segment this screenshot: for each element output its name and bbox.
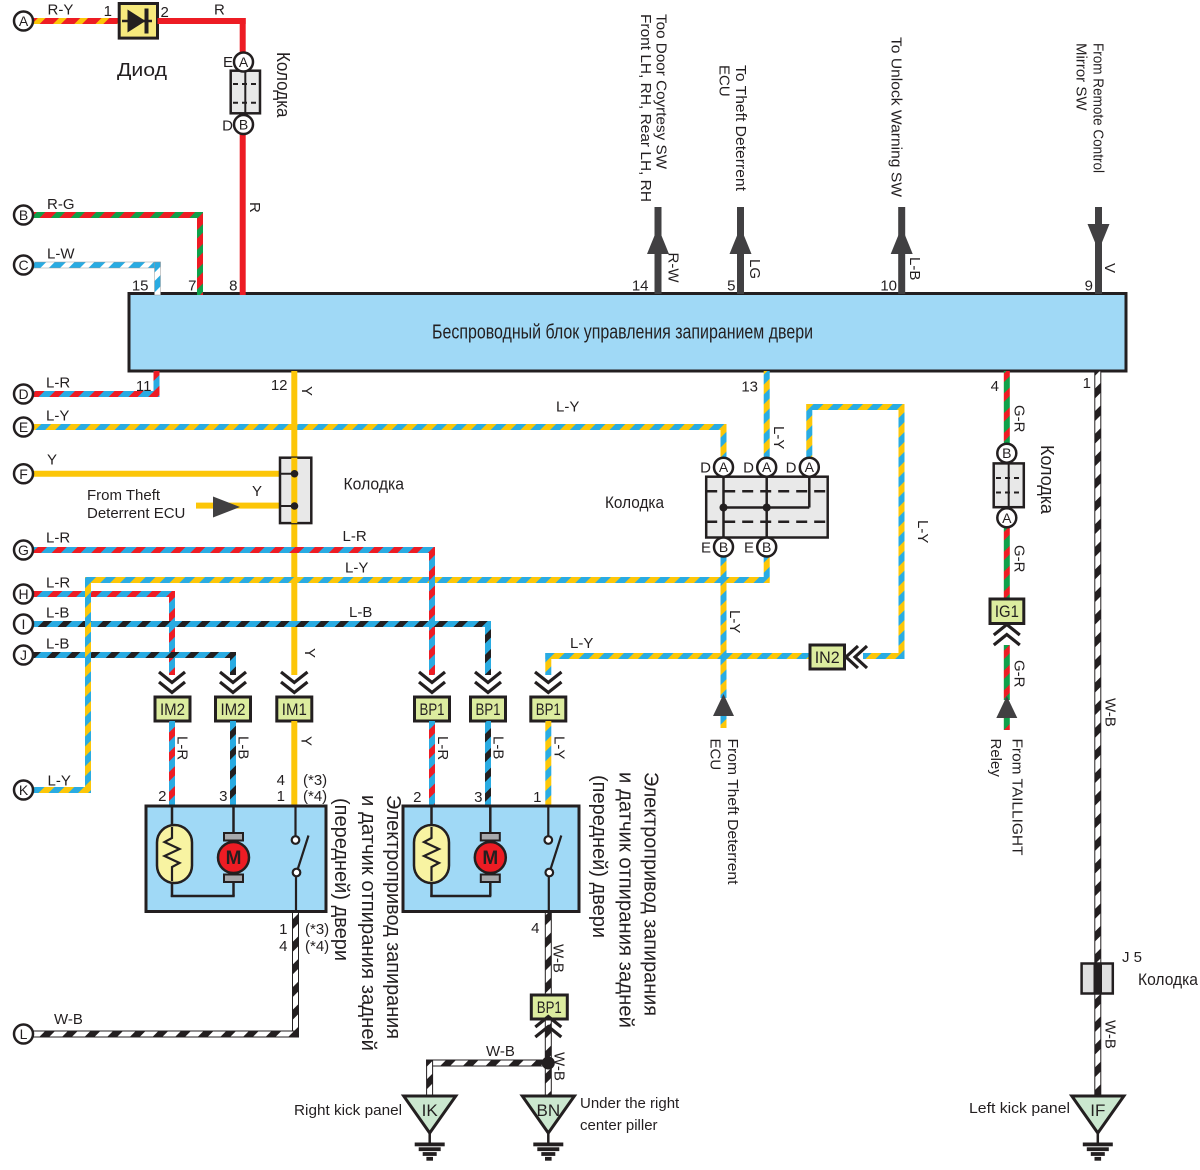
svg-text:B: B — [1002, 445, 1011, 461]
svg-text:E: E — [223, 54, 233, 71]
wire L-R from node D to ECU pin 11 — [31, 371, 160, 397]
svg-text:12: 12 — [271, 377, 288, 394]
svg-text:R: R — [214, 2, 225, 19]
svg-text:V: V — [1101, 263, 1118, 273]
bulb / unlock sensor resistor rear — [414, 808, 491, 898]
svg-text:Колодка: Колодка — [344, 475, 405, 494]
svg-text:Y: Y — [298, 736, 315, 746]
svg-text:Reley: Reley — [987, 739, 1004, 778]
wire L-R IM2 no.1 to actuator pin 2 — [169, 721, 191, 806]
svg-text:B: B — [762, 539, 771, 555]
svg-text:R-G: R-G — [47, 196, 75, 213]
BP1 junction block bottom — [531, 995, 567, 1019]
svg-text:W-B: W-B — [550, 944, 567, 973]
svg-text:M: M — [482, 848, 498, 869]
svg-text:2: 2 — [413, 789, 421, 806]
svg-text:D: D — [700, 460, 711, 477]
wireless door lock control ECU block — [129, 294, 1126, 372]
svg-text:L: L — [20, 1026, 28, 1042]
svg-text:Колодка: Колодка — [273, 52, 293, 118]
svg-text:J 5: J 5 — [1122, 949, 1142, 966]
switch / unlock detection switch rear — [545, 808, 562, 912]
chevrons below bottom BP1 — [535, 1017, 561, 1038]
svg-text:IM2: IM2 — [221, 700, 246, 719]
front actuator pin labels — [158, 772, 329, 955]
svg-text:Y: Y — [252, 483, 262, 500]
wire W-B branch to IK ground — [427, 1043, 552, 1096]
chevrons below IG1 — [994, 625, 1020, 646]
svg-text:Front LH, RH, Rear LH, RH: Front LH, RH, Rear LH, RH — [637, 14, 654, 202]
svg-text:L-R: L-R — [434, 736, 451, 760]
svg-text:IG1: IG1 — [995, 602, 1019, 621]
svg-text:From Theft: From Theft — [87, 487, 161, 504]
svg-text:L-W: L-W — [47, 246, 75, 263]
svg-text:To Unlock Warning SW: To Unlock Warning SW — [888, 37, 905, 198]
wire L-Y from connector B1 down to theft deterrent arrow — [721, 557, 744, 729]
BP1 relay block no.3 — [531, 697, 566, 721]
svg-text:E: E — [744, 540, 754, 557]
IM2 relay block no.2 — [216, 697, 251, 721]
svg-text:L-R: L-R — [174, 736, 191, 760]
svg-text:1: 1 — [104, 3, 112, 20]
chevrons above IM2 no.2 — [220, 672, 246, 693]
wire Y from node F to connector — [31, 452, 295, 477]
svg-text:Колодка: Колодка — [1138, 970, 1198, 989]
connector (Kolodka) right near pin 4 — [994, 444, 1057, 528]
svg-text:From Theft Deterrent: From Theft Deterrent — [724, 739, 741, 886]
ECU pin labels bottom — [136, 375, 1091, 396]
svg-text:1: 1 — [279, 921, 287, 938]
svg-text:L-Y: L-Y — [570, 635, 593, 652]
svg-text:4: 4 — [279, 938, 287, 955]
svg-text:IF: IF — [1090, 1101, 1105, 1120]
IG1 junction block — [990, 599, 1024, 624]
svg-text:(передней) двери: (передней) двери — [330, 798, 352, 961]
top arrow from remote control mirror switch pin 9 — [1073, 43, 1119, 295]
svg-text:B: B — [239, 117, 248, 133]
ground IK right kick panel — [294, 1096, 456, 1161]
connector (Kolodka) top near diode — [222, 52, 293, 135]
svg-text:J: J — [20, 647, 27, 663]
svg-text:A: A — [239, 54, 249, 70]
junction dot W-B — [542, 1057, 555, 1070]
motor M rear — [475, 808, 506, 897]
svg-text:R-Y: R-Y — [48, 2, 74, 19]
chevrons above IM2 no.1 — [159, 672, 185, 693]
svg-text:G-R: G-R — [1011, 660, 1028, 688]
svg-text:(*4): (*4) — [303, 788, 327, 805]
svg-text:1: 1 — [277, 788, 285, 805]
bulb / unlock sensor resistor front — [157, 808, 235, 898]
svg-text:G: G — [18, 542, 29, 558]
svg-text:L-R: L-R — [343, 528, 367, 545]
ECU pin labels top — [132, 278, 238, 295]
svg-text:From Remote Control: From Remote Control — [1090, 43, 1107, 173]
svg-text:center piller: center piller — [580, 1117, 658, 1134]
svg-text:K: K — [19, 782, 29, 798]
node I — [14, 615, 33, 634]
wire L-Y from node E to connector A1 — [31, 399, 727, 459]
arrow from theft deterrent ECU (up) — [707, 694, 742, 885]
svg-text:Under the right: Under the right — [580, 1095, 680, 1112]
svg-text:BP1: BP1 — [536, 700, 561, 719]
svg-text:IK: IK — [422, 1101, 439, 1120]
front door lock actuator box — [146, 806, 326, 912]
svg-text:L-B: L-B — [46, 605, 69, 622]
svg-text:Электропривод запирания: Электропривод запирания — [640, 772, 662, 1016]
svg-text:Y: Y — [298, 386, 315, 396]
diode D1 — [104, 3, 169, 80]
svg-text:Беспроводный блок управления з: Беспроводный блок управления запиранием … — [432, 322, 813, 344]
node L — [14, 1025, 33, 1044]
svg-text:BP1: BP1 — [420, 700, 445, 719]
svg-text:ECU: ECU — [716, 65, 733, 97]
svg-text:BN: BN — [536, 1101, 560, 1120]
switch / unlock detection switch front — [292, 808, 309, 912]
connector J5 (Kolodka) on W-B wire — [1082, 949, 1199, 994]
node D — [14, 385, 33, 404]
svg-text:D: D — [18, 386, 28, 402]
node H — [14, 585, 33, 604]
wire Y from ECU pin 12 down to IM1 — [291, 371, 318, 675]
chevrons above BP1 no.3 — [535, 672, 562, 693]
wire L-R from node G to BP1 no.1 — [31, 528, 435, 675]
connector (Kolodka) middle with Y wires — [280, 458, 404, 523]
svg-text:13: 13 — [741, 379, 758, 396]
BP1 relay block no.2 — [471, 697, 506, 721]
svg-text:W-B: W-B — [1102, 698, 1119, 727]
wire Y from theft deterrent ECU arrow to connector — [196, 483, 295, 509]
svg-text:L-B: L-B — [349, 604, 372, 621]
svg-text:(*3): (*3) — [303, 772, 327, 789]
svg-text:E: E — [19, 419, 28, 435]
wire L-Y from IN2 to BP1 no.3 — [545, 635, 810, 675]
ground IF left kick panel — [969, 1096, 1124, 1161]
top arrow to unlock warning switch pin 10 — [880, 37, 923, 295]
svg-text:L-Y: L-Y — [551, 736, 568, 759]
svg-text:15: 15 — [132, 278, 149, 295]
wire L-B from node I to BP1 no.2 — [31, 604, 491, 675]
svg-text:Right kick panel: Right kick panel — [294, 1102, 402, 1119]
svg-text:4: 4 — [531, 920, 539, 937]
svg-text:ECU: ECU — [707, 739, 724, 771]
svg-text:I: I — [22, 616, 26, 632]
svg-text:4: 4 — [277, 772, 285, 789]
node C — [14, 256, 33, 275]
node J — [14, 646, 33, 665]
svg-text:A: A — [719, 459, 729, 475]
wire L-Y ECU pin 13 to connector A2 — [764, 371, 787, 458]
wire L-Y BP1 no.3 to actuator pin 1 — [545, 721, 567, 806]
svg-text:M: M — [226, 848, 242, 869]
svg-text:4: 4 — [991, 378, 999, 395]
svg-text:и датчик отпирания задней: и датчик отпирания задней — [357, 795, 379, 1051]
IN2 junction block — [810, 645, 845, 669]
IM1 relay block — [277, 697, 312, 721]
svg-text:(передней) двери: (передней) двери — [588, 775, 610, 938]
arrow from theft deterrent ECU — [87, 487, 240, 522]
svg-text:Колодка: Колодка — [1037, 445, 1057, 515]
svg-text:From TAILLIGHT: From TAILLIGHT — [1008, 739, 1025, 856]
svg-text:Y: Y — [301, 648, 318, 658]
svg-text:D: D — [786, 460, 797, 477]
svg-text:W-B: W-B — [1102, 1020, 1119, 1049]
svg-text:W-B: W-B — [486, 1043, 515, 1060]
svg-text:A: A — [762, 459, 772, 475]
wire G-R below IG1 to taillight relay arrow — [1004, 645, 1028, 730]
wire G-R connector A to IG1 — [1004, 528, 1028, 600]
svg-text:5: 5 — [727, 278, 735, 295]
wire G-R ECU pin 4 to connector B — [1004, 371, 1028, 444]
wire L-R BP1 no.1 to actuator pin 2 — [429, 721, 451, 806]
top arrow to theft deterrent ECU pin 5 — [716, 65, 764, 295]
wire R-G from node B to ECU pin 7 — [31, 196, 203, 295]
wire W-B front door actuator switch to node L — [31, 911, 299, 1037]
svg-text:10: 10 — [880, 278, 897, 295]
wire L-B IM2 no.2 to actuator pin 3 — [230, 721, 252, 806]
rear door lock actuator box — [403, 806, 579, 912]
wire R diode to connector — [158, 2, 246, 53]
IM2 relay block no.1 — [155, 697, 190, 721]
svg-text:L-B: L-B — [490, 736, 507, 759]
svg-text:L-Y: L-Y — [46, 408, 69, 425]
svg-text:D: D — [222, 118, 233, 135]
wire G L-R vertical over crossing — [429, 570, 435, 590]
rotated caption rear actuator — [588, 772, 662, 1028]
svg-text:IM2: IM2 — [160, 700, 185, 719]
svg-text:L-B: L-B — [46, 636, 69, 653]
svg-text:Колодка: Колодка — [605, 493, 664, 512]
svg-text:L-Y: L-Y — [726, 610, 743, 633]
svg-text:H: H — [18, 586, 28, 602]
svg-text:A: A — [1002, 510, 1012, 526]
svg-text:A: A — [805, 459, 815, 475]
svg-text:(*3): (*3) — [305, 921, 329, 938]
svg-text:L-R: L-R — [46, 375, 70, 392]
svg-text:R: R — [246, 202, 263, 213]
svg-text:7: 7 — [188, 278, 196, 295]
svg-text:G-R: G-R — [1011, 545, 1028, 573]
svg-text:L-Y: L-Y — [914, 520, 931, 543]
svg-text:Mirror SW: Mirror SW — [1073, 43, 1090, 111]
node E — [14, 418, 33, 437]
top arrow to door courtesy switches pin 14 — [632, 14, 682, 295]
svg-text:L-Y: L-Y — [345, 560, 368, 577]
svg-text:C: C — [18, 257, 28, 273]
svg-text:L-Y: L-Y — [556, 399, 579, 416]
svg-text:E: E — [701, 540, 711, 557]
svg-text:8: 8 — [229, 278, 237, 295]
svg-text:R-W: R-W — [665, 253, 682, 284]
wire W-B rear door actuator switch to BP1 and grounds — [545, 911, 567, 1096]
ground BN under the right center pillar — [522, 1095, 680, 1161]
svg-text:Deterrent ECU: Deterrent ECU — [87, 505, 185, 522]
connector (Kolodka) with 3 A pins and 2 B pins — [605, 458, 828, 557]
svg-text:3: 3 — [219, 788, 227, 805]
wire L-W from node C to ECU pin 15 — [31, 246, 161, 296]
node K — [14, 781, 33, 800]
svg-text:L-R: L-R — [46, 530, 70, 547]
chevrons right of IN2 — [846, 646, 867, 668]
node B — [14, 206, 33, 225]
node F — [14, 464, 33, 483]
wire L-R from node H to IM2 no.1 — [31, 575, 175, 676]
wire L-B BP1 no.2 to actuator pin 3 — [485, 721, 507, 806]
wire Y IM1 to actuator pin 4/1 — [291, 721, 314, 806]
svg-text:14: 14 — [632, 278, 649, 295]
svg-text:BP1: BP1 — [537, 998, 562, 1017]
svg-text:и датчик отпирания задней: и датчик отпирания задней — [615, 772, 637, 1028]
svg-text:1: 1 — [533, 789, 541, 806]
svg-text:11: 11 — [136, 378, 152, 395]
motor M front — [218, 808, 249, 897]
svg-text:A: A — [19, 13, 29, 29]
wire R-Y from node A to diode — [31, 2, 119, 25]
svg-text:L-Y: L-Y — [48, 773, 71, 790]
svg-text:Left kick panel: Left kick panel — [969, 1100, 1070, 1117]
svg-text:LG: LG — [746, 259, 763, 279]
svg-text:IM1: IM1 — [282, 700, 307, 719]
node G — [14, 541, 33, 560]
wire L-Y from node K to connector B2 — [31, 557, 770, 794]
svg-text:IN2: IN2 — [815, 648, 840, 667]
svg-text:Too Door Coyrtesy SW: Too Door Coyrtesy SW — [653, 14, 670, 170]
chevrons above IM1 — [281, 672, 308, 693]
arrow from taillight relay (up) — [987, 696, 1025, 856]
svg-text:F: F — [19, 466, 28, 482]
svg-text:B: B — [719, 539, 728, 555]
svg-text:L-B: L-B — [906, 257, 923, 280]
svg-text:(*4): (*4) — [305, 938, 329, 955]
svg-text:L-R: L-R — [46, 575, 70, 592]
rotated caption front actuator — [330, 795, 404, 1051]
svg-text:3: 3 — [474, 789, 482, 806]
chevrons above BP1 no.1 — [419, 672, 445, 693]
svg-text:To Theft Deterrent: To Theft Deterrent — [732, 65, 749, 192]
svg-text:1: 1 — [1083, 375, 1091, 392]
wire L-B from node J to IM2 no.2 — [31, 636, 236, 676]
svg-text:G-R: G-R — [1011, 405, 1028, 433]
svg-text:D: D — [743, 460, 754, 477]
svg-text:W-B: W-B — [54, 1011, 83, 1028]
chevrons above BP1 no.2 — [475, 672, 501, 693]
wire W-B ECU pin 1 to J5 connector and IF ground — [1095, 371, 1119, 1096]
svg-text:L-Y: L-Y — [770, 426, 787, 449]
svg-text:Диод: Диод — [117, 60, 168, 80]
wire L-Y loop from connector A3 to IN2 chevrons — [806, 404, 931, 659]
node A — [14, 12, 33, 31]
BP1 relay block no.1 — [415, 697, 450, 721]
svg-text:B: B — [19, 207, 28, 223]
svg-text:9: 9 — [1085, 278, 1093, 295]
svg-text:2: 2 — [158, 788, 166, 805]
svg-text:BP1: BP1 — [476, 700, 501, 719]
svg-text:Электропривод запирания: Электропривод запирания — [382, 795, 404, 1039]
svg-text:Y: Y — [47, 452, 57, 469]
wire R connector B to ECU pin 8 — [240, 134, 263, 295]
rear actuator pin labels — [413, 789, 541, 937]
svg-text:L-B: L-B — [235, 736, 252, 759]
